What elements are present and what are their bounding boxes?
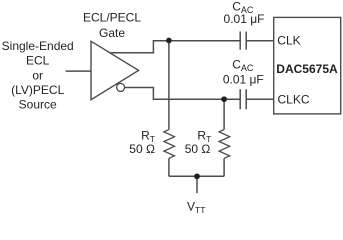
label: 50 ohm (left) (129, 142, 155, 156)
gate U1 (ECL/PECL buffer) (91, 41, 139, 99)
junction: bottom rail / VTT stub (194, 173, 200, 179)
label: C_AC (top) (232, 0, 254, 15)
svg-text:Single-Ended: Single-Ended (2, 39, 74, 53)
svg-text:0.01 μF: 0.01 μF (224, 12, 265, 26)
label: 0.01 uF (bottom) (223, 72, 264, 86)
junction: CLKC line / right resistor (221, 96, 227, 102)
resistor R_T (right, 50 ohm) (219, 99, 230, 176)
svg-text:Gate: Gate (99, 26, 125, 40)
wire: bottom capacitor to CLKC pin (246, 98, 274, 100)
label: R_T (left) (141, 128, 155, 144)
label: Single-Ended ECL or (LV)PECL Source (2, 39, 74, 112)
DAC5675A box U2 (274, 17, 341, 114)
wire: gate true output to CLK line (111, 41, 240, 53)
label: R_T (right) (197, 128, 211, 144)
svg-text:(LV)PECL: (LV)PECL (11, 83, 64, 97)
wire: top capacitor to CLK pin (246, 40, 274, 42)
svg-text:CAC: CAC (232, 57, 254, 73)
label: ECL/PECL Gate (83, 11, 141, 41)
label: C_AC (bottom) (232, 57, 254, 73)
label: 0.01 uF (top) (224, 12, 265, 26)
label: V_TT (187, 199, 205, 215)
label: CLK pin (277, 34, 300, 48)
label: CLKC pin (278, 93, 310, 107)
svg-text:ECL: ECL (26, 54, 50, 68)
svg-text:DAC5675A: DAC5675A (276, 62, 338, 76)
capacitor C_AC (top, CLK) (240, 32, 246, 50)
svg-text:50 Ω: 50 Ω (129, 142, 155, 156)
resistor R_T (left, 50 ohm) (164, 41, 175, 177)
wire: gate inverted output to CLKC line (124, 88, 240, 100)
svg-text:50 Ω: 50 Ω (185, 142, 211, 156)
svg-text:VTT: VTT (187, 199, 205, 214)
wire: input from source to gate (66, 70, 91, 72)
label: 50 ohm (right) (185, 142, 211, 156)
junction: CLK line / left resistor (166, 38, 172, 44)
svg-text:Source: Source (19, 98, 57, 112)
wire: stub to VTT (196, 176, 198, 193)
svg-text:CLK: CLK (277, 34, 300, 48)
svg-text:CLKC: CLKC (278, 93, 310, 107)
svg-text:0.01 μF: 0.01 μF (223, 72, 264, 86)
label: DAC5675A (276, 62, 338, 76)
capacitor C_AC (bottom, CLKC) (240, 89, 246, 109)
svg-text:ECL/PECL: ECL/PECL (83, 11, 141, 25)
inverting output bubble (117, 83, 125, 91)
svg-text:or: or (32, 68, 43, 82)
wire: bottom rail joining resistors (169, 175, 224, 177)
